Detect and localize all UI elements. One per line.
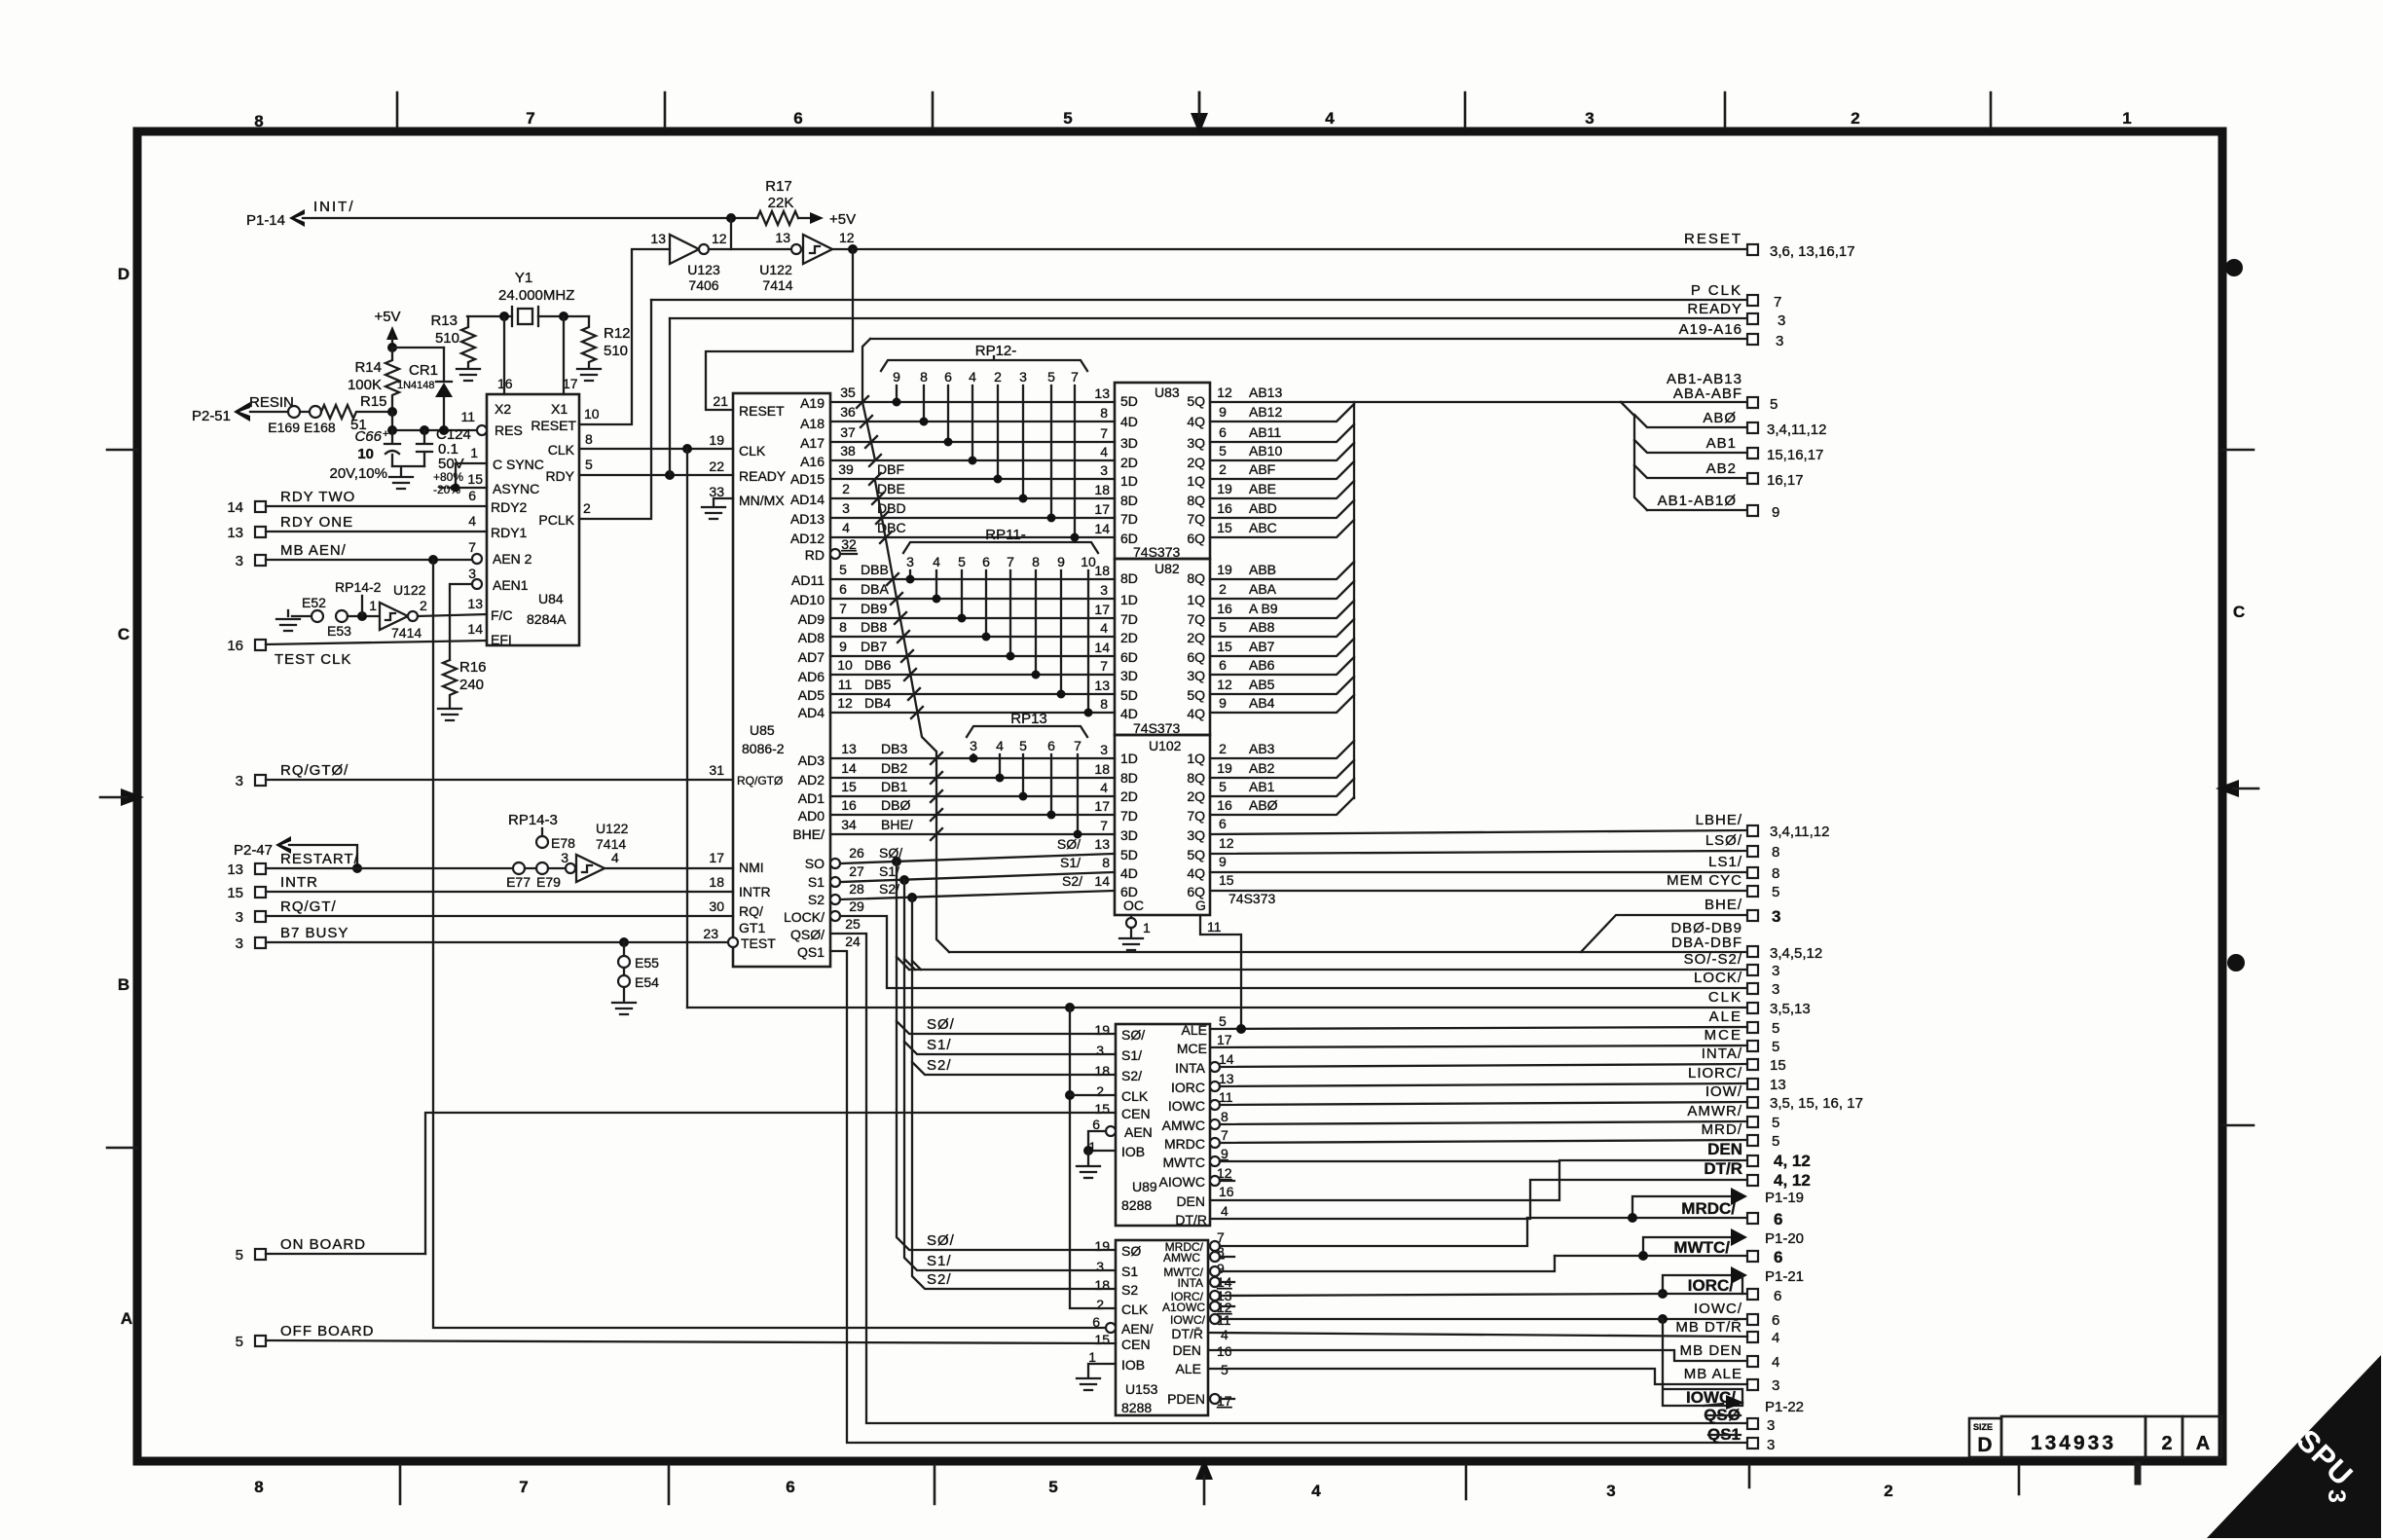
- svg-text:24.000MHZ: 24.000MHZ: [498, 287, 574, 304]
- wire MEM CYC row: [1210, 872, 1747, 891]
- svg-text:3D: 3D: [1120, 827, 1138, 843]
- svg-text:INIT/: INIT/: [313, 199, 355, 215]
- svg-text:S1: S1: [808, 874, 825, 890]
- svg-text:8: 8: [839, 619, 847, 635]
- svg-text:5Q: 5Q: [1187, 687, 1205, 703]
- svg-text:EFI: EFI: [491, 632, 512, 647]
- svg-text:19: 19: [1217, 481, 1232, 496]
- svg-text:D: D: [118, 265, 129, 283]
- svg-text:3: 3: [1772, 907, 1780, 926]
- wire A17 row: [830, 424, 1115, 442]
- svg-text:RDY1: RDY1: [491, 525, 528, 540]
- resistor-pack stub RP14-2: [335, 579, 382, 616]
- inverter U122 7414 (pin 13-12): [759, 230, 855, 293]
- ground at R16: [438, 709, 461, 720]
- terminal LBHE/: [1696, 812, 1830, 840]
- svg-text:RD: RD: [805, 547, 825, 563]
- arrow P1-22 IOWC/ box: [1663, 1319, 1804, 1415]
- svg-text:3,4,11,12: 3,4,11,12: [1770, 824, 1829, 840]
- svg-text:17: 17: [1094, 602, 1110, 617]
- svg-text:9: 9: [1219, 404, 1227, 420]
- svg-text:7: 7: [526, 109, 534, 128]
- input INTR: [227, 874, 733, 901]
- svg-text:S2/: S2/: [927, 1057, 952, 1074]
- svg-text:8: 8: [1102, 855, 1110, 870]
- terminal LS0/: [1705, 832, 1780, 861]
- svg-text:AD15: AD15: [790, 471, 825, 487]
- svg-text:15: 15: [1094, 1332, 1110, 1347]
- jumper E77 E79: [506, 862, 566, 890]
- svg-text:RDY ONE: RDY ONE: [280, 514, 353, 531]
- svg-text:S2/: S2/: [927, 1271, 952, 1288]
- svg-text:2: 2: [994, 369, 1002, 385]
- wire LS0 row: [1210, 835, 1747, 854]
- svg-text:A: A: [2196, 1433, 2210, 1454]
- svg-text:33: 33: [709, 484, 724, 499]
- wire U84 RDY to U85 READY: [579, 318, 733, 480]
- svg-text:DB2: DB2: [881, 760, 907, 776]
- wire DB2 row: [830, 760, 1115, 778]
- svg-text:ALE: ALE: [1182, 1022, 1207, 1038]
- svg-text:AD7: AD7: [798, 649, 825, 665]
- svg-text:E77: E77: [506, 874, 531, 890]
- svg-text:E54: E54: [635, 974, 659, 990]
- input RESTART/: [227, 851, 513, 878]
- svg-text:13: 13: [1094, 678, 1110, 693]
- svg-text:5: 5: [236, 1247, 243, 1264]
- terminal ALE: [1709, 1008, 1780, 1037]
- svg-text:E79: E79: [536, 874, 561, 890]
- wire U153 AEN bubble: [1106, 1323, 1116, 1333]
- svg-text:2Q: 2Q: [1187, 630, 1205, 645]
- svg-text:MRDC: MRDC: [1164, 1136, 1205, 1152]
- svg-text:6: 6: [982, 554, 990, 569]
- CPU U85 8086-2: [733, 393, 830, 967]
- svg-text:5: 5: [1219, 619, 1227, 635]
- wire U123 out to U122 in: [709, 248, 791, 250]
- svg-text:AB5: AB5: [1249, 677, 1275, 692]
- terminal IORC/: [1658, 1275, 1781, 1304]
- svg-text:S2/: S2/: [1121, 1068, 1142, 1083]
- svg-text:DB1: DB1: [881, 779, 907, 794]
- center arrow right: [2216, 780, 2258, 797]
- svg-text:5Q: 5Q: [1187, 393, 1205, 409]
- power +5V at R17: [798, 211, 856, 228]
- terminal MEM CYC: [1667, 872, 1779, 900]
- svg-text:8: 8: [1221, 1109, 1228, 1124]
- svg-text:17: 17: [563, 376, 578, 391]
- svg-text:IOB: IOB: [1121, 1357, 1145, 1373]
- svg-text:100K: 100K: [348, 377, 382, 393]
- svg-text:S2: S2: [1121, 1282, 1138, 1298]
- wire U89 ALE out: [1210, 1024, 1747, 1034]
- wire U153 PDEN stub: [1210, 1394, 1234, 1404]
- svg-text:AD5: AD5: [798, 687, 825, 703]
- bus controller U153 8288: [1116, 1240, 1208, 1415]
- jumper E55 E54 with ground: [612, 942, 659, 1014]
- svg-text:MRD/: MRD/: [1702, 1121, 1742, 1138]
- wire DB6 row: [830, 657, 1115, 675]
- svg-text:6: 6: [1772, 1312, 1779, 1329]
- svg-text:DBA: DBA: [861, 581, 889, 597]
- svg-text:AB11: AB11: [1249, 424, 1281, 440]
- svg-text:18: 18: [709, 874, 724, 890]
- svg-text:AMWC: AMWC: [1163, 1251, 1200, 1265]
- terminal RESET: [1684, 231, 1855, 260]
- svg-text:DB9: DB9: [861, 601, 887, 616]
- svg-text:5: 5: [1219, 1013, 1227, 1029]
- svg-text:24: 24: [845, 934, 861, 949]
- svg-text:P CLK: P CLK: [1691, 282, 1742, 299]
- svg-text:35: 35: [840, 385, 856, 400]
- wire DB7 row: [830, 639, 1115, 656]
- svg-text:8: 8: [920, 369, 928, 385]
- svg-text:Y1: Y1: [515, 270, 532, 286]
- svg-text:134933: 134933: [2031, 1432, 2116, 1454]
- svg-text:29: 29: [849, 898, 864, 914]
- svg-text:6: 6: [793, 109, 802, 128]
- svg-text:DEN: DEN: [1176, 1193, 1205, 1209]
- svg-text:AIOWC: AIOWC: [1159, 1174, 1205, 1190]
- svg-text:3: 3: [1100, 582, 1108, 598]
- svg-text:X2: X2: [495, 401, 511, 417]
- svg-text:14: 14: [1094, 521, 1110, 536]
- svg-text:2: 2: [1219, 461, 1227, 477]
- svg-text:RDY TWO: RDY TWO: [280, 489, 355, 505]
- svg-text:DBØ: DBØ: [881, 797, 910, 813]
- svg-text:8: 8: [1772, 865, 1779, 882]
- svg-text:E168: E168: [304, 420, 336, 435]
- wire S2/ vertical net: [907, 893, 1116, 1289]
- input RQ/GT0/: [236, 762, 733, 789]
- svg-text:5: 5: [1019, 738, 1027, 753]
- wire DBC row: [830, 520, 1115, 537]
- wire QS0/ route: [830, 916, 1747, 1423]
- svg-text:D: D: [1977, 1434, 1992, 1456]
- svg-text:+5V: +5V: [829, 211, 856, 228]
- zone ticks left edge: [107, 450, 137, 1148]
- svg-text:7: 7: [1100, 658, 1108, 674]
- wire A19 row: [830, 385, 1115, 402]
- svg-text:RQ/GTØ: RQ/GTØ: [737, 774, 783, 788]
- svg-text:DB6: DB6: [864, 657, 891, 673]
- svg-text:CEN: CEN: [1121, 1337, 1151, 1352]
- svg-text:7414: 7414: [596, 836, 626, 852]
- svg-text:9: 9: [1772, 504, 1779, 521]
- svg-text:C66: C66: [354, 428, 382, 445]
- svg-text:E52: E52: [302, 595, 326, 610]
- resistor R13 510: [430, 312, 475, 367]
- svg-text:6: 6: [1774, 1210, 1782, 1228]
- svg-text:LOCK/: LOCK/: [1694, 970, 1742, 986]
- svg-text:4Q: 4Q: [1187, 706, 1205, 721]
- latch left pin numbers U82: [1094, 563, 1110, 712]
- pin OC with ground: [1119, 915, 1151, 950]
- svg-text:4: 4: [1325, 109, 1335, 128]
- svg-text:RESET: RESET: [739, 403, 785, 419]
- svg-text:CLK: CLK: [1121, 1088, 1149, 1104]
- wire A18 row: [830, 404, 1115, 422]
- svg-text:3: 3: [1100, 742, 1108, 757]
- svg-text:4Q: 4Q: [1187, 414, 1205, 429]
- svg-text:5: 5: [1772, 1115, 1779, 1131]
- svg-text:3: 3: [1767, 1417, 1775, 1434]
- svg-text:13: 13: [841, 741, 857, 756]
- svg-text:U89: U89: [1132, 1179, 1157, 1194]
- svg-text:ALE: ALE: [1709, 1008, 1742, 1025]
- svg-text:17: 17: [709, 850, 724, 865]
- svg-text:IOWC/: IOWC/: [1170, 1313, 1206, 1327]
- svg-text:+5V: +5V: [374, 309, 400, 325]
- bus tap A19-A16: [857, 339, 881, 466]
- svg-text:AB7: AB7: [1249, 639, 1275, 654]
- svg-text:8288: 8288: [1121, 1197, 1152, 1213]
- svg-text:10: 10: [584, 406, 600, 422]
- svg-text:2: 2: [842, 481, 850, 496]
- svg-text:MCE: MCE: [1177, 1041, 1207, 1056]
- wire S0/ vertical net: [892, 857, 1116, 1250]
- wire U153 INTA stub: [1210, 1277, 1234, 1287]
- U153 pin numbers: [1088, 1229, 1232, 1409]
- wire DB5 row: [830, 677, 1115, 694]
- svg-text:LBHE/: LBHE/: [1696, 812, 1742, 828]
- svg-text:2D: 2D: [1120, 630, 1138, 645]
- svg-text:3: 3: [1778, 312, 1785, 329]
- input RDY TWO: [227, 489, 487, 516]
- svg-text:LIORC/: LIORC/: [1688, 1065, 1742, 1082]
- svg-text:3,4,5,12: 3,4,5,12: [1770, 945, 1822, 962]
- terminal READY: [670, 301, 1785, 329]
- terminal QS1: [1707, 1425, 1775, 1453]
- terminal MB DT/R: [1675, 1319, 1779, 1346]
- svg-text:ON BOARD: ON BOARD: [280, 1236, 366, 1253]
- svg-text:P1-20: P1-20: [1765, 1230, 1804, 1247]
- pin RD stub: [830, 536, 857, 559]
- svg-text:6: 6: [468, 488, 476, 503]
- svg-text:NMI: NMI: [739, 860, 764, 875]
- svg-text:6: 6: [1219, 424, 1227, 440]
- svg-text:1: 1: [2122, 109, 2131, 128]
- svg-text:AD8: AD8: [798, 630, 825, 645]
- latch U82 74S373: [1115, 559, 1210, 736]
- svg-text:6: 6: [1047, 738, 1055, 753]
- resistor pack RP11: [903, 527, 1098, 717]
- svg-text:5D: 5D: [1120, 393, 1138, 409]
- svg-text:15: 15: [1094, 1101, 1110, 1117]
- svg-text:25: 25: [845, 916, 861, 932]
- svg-text:U85: U85: [750, 722, 775, 738]
- svg-text:3,6, 13,16,17: 3,6, 13,16,17: [1770, 243, 1855, 260]
- svg-text:P1-22: P1-22: [1765, 1399, 1804, 1415]
- U85 left pin numbers: [703, 393, 728, 941]
- inverter U122 7414 (pin 1-2): [369, 582, 427, 641]
- svg-text:B7 BUSY: B7 BUSY: [280, 925, 348, 941]
- wire U89 MWTC stub: [1210, 1156, 1559, 1166]
- svg-text:MWTC: MWTC: [1162, 1155, 1205, 1170]
- svg-text:15,16,17: 15,16,17: [1767, 447, 1823, 463]
- wire ON BOARD to U89 CEN: [425, 1113, 1116, 1254]
- bubble RES: [0, 0, 1, 1]
- svg-text:5: 5: [958, 554, 966, 569]
- svg-text:AD6: AD6: [798, 669, 825, 684]
- svg-text:AB2: AB2: [1706, 460, 1737, 477]
- svg-text:U83: U83: [1155, 385, 1180, 400]
- svg-text:20V,10%: 20V,10%: [329, 465, 387, 482]
- svg-text:RP14-3: RP14-3: [508, 812, 558, 828]
- svg-text:5: 5: [1219, 443, 1227, 458]
- svg-text:C: C: [2233, 603, 2245, 621]
- svg-text:1Q: 1Q: [1187, 473, 1205, 489]
- svg-text:4: 4: [1772, 1354, 1779, 1371]
- svg-text:P1-14: P1-14: [246, 212, 285, 229]
- wire DB0 row: [830, 797, 1115, 815]
- svg-text:QS1: QS1: [797, 944, 825, 960]
- terminal IOW/: [1705, 1083, 1863, 1112]
- svg-text:DB4: DB4: [864, 695, 891, 711]
- terminal AB1-AB10: [1647, 493, 1779, 521]
- svg-text:16: 16: [1217, 601, 1232, 616]
- svg-text:DT/R̄: DT/R̄: [1171, 1326, 1203, 1341]
- svg-text:ABB: ABB: [1249, 562, 1276, 577]
- wire U153 IOWC/ route: [1210, 1314, 1663, 1324]
- svg-text:6: 6: [1219, 657, 1227, 673]
- svg-text:3: 3: [1100, 462, 1108, 478]
- latch U83 output rows: [1210, 385, 1621, 537]
- svg-text:IORC: IORC: [1171, 1080, 1205, 1095]
- svg-text:3: 3: [236, 773, 243, 789]
- svg-text:1D: 1D: [1120, 751, 1138, 766]
- svg-text:DBF: DBF: [877, 461, 904, 477]
- SPU corner triangle: [2207, 1355, 2381, 1538]
- wire INIT/ to P1-14: [246, 199, 757, 229]
- svg-text:14: 14: [227, 499, 243, 516]
- wire U153 DEN to MB DEN: [1210, 1350, 1747, 1361]
- svg-text:RDY2: RDY2: [491, 499, 528, 515]
- svg-text:AMWR/: AMWR/: [1687, 1103, 1742, 1119]
- svg-text:E55: E55: [635, 955, 659, 971]
- wire AEN1 to R16: [450, 579, 482, 660]
- svg-text:U122: U122: [596, 821, 629, 836]
- svg-text:A1OWC: A1OWC: [1162, 1301, 1205, 1314]
- wire LS1 row: [1210, 854, 1747, 872]
- wire U89 IORC out: [1210, 1082, 1747, 1091]
- terminal AMWR/: [1687, 1103, 1779, 1131]
- svg-text:U122: U122: [393, 582, 426, 598]
- svg-text:RP14-2: RP14-2: [335, 579, 382, 595]
- svg-text:1: 1: [1143, 920, 1151, 935]
- svg-text:4D: 4D: [1120, 865, 1138, 881]
- wire DB8 row: [830, 619, 1115, 637]
- svg-text:RESTART/: RESTART/: [280, 851, 359, 867]
- svg-text:8284A: 8284A: [527, 611, 567, 627]
- zone ticks bottom: [400, 1465, 2138, 1504]
- svg-text:26: 26: [849, 845, 864, 861]
- svg-text:5: 5: [1772, 1020, 1779, 1037]
- svg-text:3: 3: [1772, 981, 1779, 998]
- svg-text:P1-21: P1-21: [1765, 1268, 1804, 1285]
- svg-text:A: A: [121, 1309, 132, 1328]
- svg-text:9: 9: [893, 369, 900, 385]
- svg-text:S1: S1: [1121, 1264, 1138, 1279]
- svg-text:23: 23: [703, 926, 718, 941]
- svg-text:MB ALE: MB ALE: [1684, 1366, 1742, 1382]
- svg-text:RESIN: RESIN: [249, 394, 294, 411]
- input RQ/GT/: [236, 898, 733, 926]
- svg-text:F/C: F/C: [491, 607, 513, 623]
- svg-text:AB1-AB1Ø: AB1-AB1Ø: [1658, 493, 1737, 509]
- svg-text:12: 12: [1217, 385, 1232, 400]
- input B7 BUSY: [236, 925, 738, 952]
- svg-text:4: 4: [468, 513, 476, 529]
- wire U153 ALE to MB ALE: [1210, 1369, 1747, 1384]
- svg-text:8: 8: [585, 431, 593, 447]
- arrow P1-21: [1663, 1266, 1804, 1294]
- svg-text:S1/: S1/: [927, 1253, 952, 1269]
- svg-text:18: 18: [1094, 1277, 1110, 1293]
- svg-text:AD11: AD11: [791, 572, 825, 588]
- svg-text:4: 4: [1772, 1330, 1779, 1346]
- terminal DEN: [1707, 1140, 1811, 1170]
- svg-text:12: 12: [837, 695, 853, 711]
- zone numbers top: [254, 109, 2131, 130]
- svg-text:7406: 7406: [688, 277, 718, 293]
- svg-text:3: 3: [1585, 109, 1594, 128]
- svg-text:22K: 22K: [768, 195, 794, 211]
- svg-text:4: 4: [1100, 620, 1108, 636]
- svg-text:INTA: INTA: [1175, 1060, 1206, 1076]
- svg-text:RP11-: RP11-: [985, 527, 1025, 543]
- svg-text:DB7: DB7: [861, 639, 887, 654]
- svg-text:4: 4: [1311, 1482, 1321, 1500]
- svg-text:4: 4: [933, 554, 940, 569]
- svg-text:240: 240: [459, 677, 484, 693]
- svg-text:12: 12: [839, 230, 855, 245]
- svg-text:7: 7: [1071, 369, 1079, 385]
- svg-text:16: 16: [227, 638, 243, 654]
- svg-text:4: 4: [1221, 1203, 1228, 1219]
- svg-text:DB5: DB5: [864, 677, 891, 692]
- svg-text:DB8: DB8: [861, 619, 887, 635]
- wire U89 AMWC out: [1210, 1119, 1747, 1129]
- svg-text:19: 19: [1094, 1022, 1110, 1038]
- svg-text:11: 11: [1219, 1089, 1233, 1105]
- resistor R14 100K: [348, 348, 399, 412]
- svg-text:12: 12: [1219, 835, 1234, 851]
- svg-text:28: 28: [849, 881, 864, 897]
- wire X2 X1 stubs: [504, 316, 564, 394]
- svg-text:19: 19: [1217, 562, 1232, 577]
- resistor R16 240: [443, 659, 487, 707]
- svg-text:TEST CLK: TEST CLK: [275, 651, 351, 668]
- svg-text:U84: U84: [538, 591, 564, 606]
- svg-text:5: 5: [236, 1334, 243, 1350]
- wire U153 IOB ground: [1077, 1364, 1116, 1390]
- svg-text:8: 8: [1100, 405, 1108, 421]
- svg-text:AEN: AEN: [1124, 1124, 1153, 1140]
- latch U102 74S373: [1115, 735, 1275, 915]
- terminal BHE/: [1581, 897, 1780, 952]
- labels S at U153: [927, 1232, 955, 1288]
- svg-text:10: 10: [357, 446, 374, 462]
- svg-text:3: 3: [236, 935, 243, 952]
- bus channel DB collector: [869, 473, 949, 952]
- svg-text:4D: 4D: [1120, 414, 1138, 429]
- svg-text:G: G: [1195, 898, 1206, 913]
- svg-text:8D: 8D: [1120, 570, 1138, 586]
- svg-text:2: 2: [1219, 581, 1227, 597]
- svg-text:2Q: 2Q: [1187, 455, 1205, 470]
- svg-text:4, 12: 4, 12: [1774, 1152, 1811, 1170]
